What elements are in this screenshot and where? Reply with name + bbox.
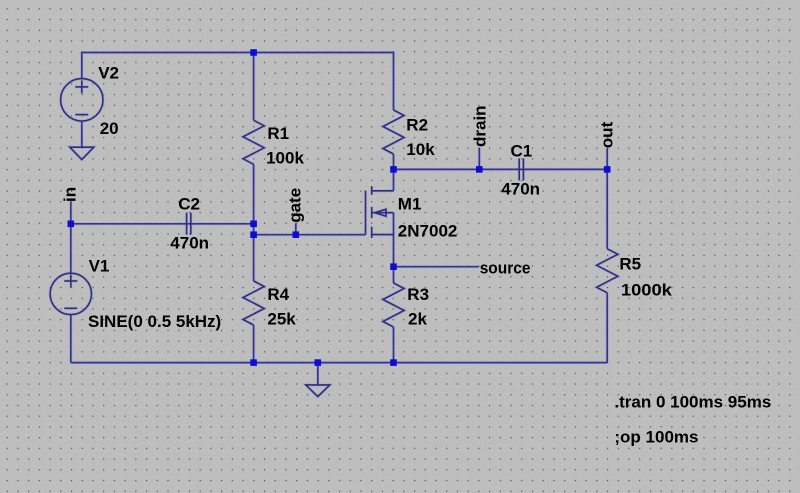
wire R5 top to out: [606, 169, 608, 248]
wire leader drain: [478, 148, 480, 170]
svg-text:C1: C1: [511, 141, 533, 160]
svg-text:V2: V2: [98, 63, 119, 82]
svg-text:R5: R5: [619, 255, 641, 274]
svg-text:2k: 2k: [408, 309, 427, 328]
wire leader out: [606, 149, 608, 170]
wire R1 bottom: [253, 164, 255, 224]
node R4 bottom: [250, 359, 257, 366]
ground under V2: [70, 147, 94, 159]
resistor R3: [383, 283, 404, 327]
svg-text:470n: 470n: [501, 179, 540, 198]
node source junction: [390, 263, 397, 270]
node gate anchor: [293, 231, 300, 238]
resistor R1: [243, 120, 264, 164]
node in anchor: [68, 221, 75, 228]
svg-text:100k: 100k: [266, 149, 304, 168]
wire mid vertical: [253, 224, 255, 235]
node out: [604, 166, 611, 173]
svg-text:20: 20: [100, 119, 119, 138]
wire in to C2 to node: [71, 223, 254, 225]
wire R5 bottom riser: [606, 293, 608, 363]
svg-text:M1: M1: [398, 194, 422, 213]
ground bottom: [306, 385, 330, 397]
node R3 bottom: [390, 359, 397, 366]
svg-text:1000k: 1000k: [621, 280, 673, 299]
svg-text:R1: R1: [267, 124, 289, 143]
svg-text:470n: 470n: [170, 234, 209, 253]
svg-text:2N7002: 2N7002: [398, 222, 458, 241]
wire in down to V1: [70, 224, 72, 273]
node junction top: [250, 49, 257, 56]
resistor R4: [243, 281, 264, 325]
capacitor C2: [186, 213, 188, 235]
svg-text:drain: drain: [471, 105, 490, 147]
wire gate: [254, 234, 366, 236]
wire halos: [71, 53, 607, 385]
wire leader gate: [295, 223, 297, 235]
svg-text:R4: R4: [267, 285, 289, 304]
transistor M1: [365, 191, 367, 235]
svg-text:;op 100ms: ;op 100ms: [614, 427, 698, 446]
svg-text:in: in: [60, 187, 79, 202]
node C2 junction: [250, 221, 257, 228]
wire M1 drain: [393, 169, 395, 190]
wire top rail: [82, 53, 394, 111]
node gate junction: [250, 231, 257, 238]
wire ground stub: [317, 363, 319, 385]
symbol halos: [50, 79, 618, 397]
wire V1 bottom: [70, 315, 72, 363]
wire R3 bottom: [393, 327, 395, 363]
resistor R2: [383, 110, 404, 154]
wire R1 top: [253, 53, 255, 121]
wire R2 bottom: [393, 154, 395, 169]
resistor R5: [597, 249, 618, 293]
svg-text:R3: R3: [407, 285, 429, 304]
svg-text:SINE(0 0.5 5kHz): SINE(0 0.5 5kHz): [88, 312, 221, 331]
voltage source V1: [50, 273, 91, 314]
svg-text:10k: 10k: [406, 140, 435, 159]
wire leader in: [70, 202, 72, 224]
wire R4 bottom: [253, 325, 255, 363]
node drain anchor: [476, 166, 483, 173]
wire R3 top: [393, 267, 395, 283]
svg-text:.tran 0 100ms 95ms: .tran 0 100ms 95ms: [614, 393, 771, 412]
capacitor C1: [518, 158, 520, 180]
svg-text:source: source: [480, 258, 531, 277]
svg-text:out: out: [598, 121, 617, 148]
svg-text:V1: V1: [89, 256, 110, 275]
svg-text:C2: C2: [178, 195, 200, 214]
wire R4 top: [253, 235, 255, 281]
svg-text:gate: gate: [286, 188, 305, 223]
node drain junction: [390, 166, 397, 173]
svg-text:R2: R2: [406, 115, 428, 134]
voltage source V2: [61, 79, 103, 121]
node ground junction: [315, 359, 322, 366]
wire drain to C1 to out: [394, 168, 608, 170]
wire source label: [394, 266, 479, 268]
wire bottom rail: [71, 362, 607, 364]
wire V2 to ground: [81, 121, 83, 147]
wire M1 source down: [393, 213, 395, 267]
svg-text:25k: 25k: [267, 309, 296, 328]
